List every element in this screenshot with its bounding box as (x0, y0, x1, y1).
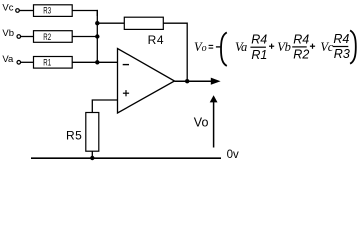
svg-text:R3: R3 (334, 47, 350, 61)
wire R1 to op-amp inverting input (72, 61, 117, 63)
wire Va terminal to R1 (21, 61, 34, 63)
junction dot bus/R4 (95, 21, 99, 25)
junction dot R5/ground (90, 156, 94, 160)
formula fraction R4/R1 (250, 33, 267, 62)
op-amp U1 (118, 49, 175, 114)
svg-text:Vc: Vc (2, 2, 13, 13)
wire bus to R4 (97, 22, 124, 24)
formula closing parenthesis (350, 30, 356, 63)
output arrow head (211, 78, 221, 85)
formula minus sign (216, 46, 221, 48)
svg-text:Vb: Vb (2, 28, 14, 39)
svg-text:R4: R4 (148, 33, 165, 47)
wire Vb terminal to R2 (21, 36, 34, 38)
wire R3 to bus (72, 11, 97, 17)
input terminal circle Vb (17, 35, 21, 39)
svg-text:R4: R4 (251, 33, 267, 47)
svg-text:R5: R5 (66, 129, 82, 143)
resistor R3 (34, 5, 73, 17)
svg-text:R4: R4 (293, 33, 309, 47)
formula plus (310, 44, 315, 49)
svg-text:Vb: Vb (277, 40, 290, 54)
wire Vc terminal to R3 (19, 10, 33, 12)
resistor R2 (34, 31, 73, 43)
junction dot bus/R1 (95, 60, 99, 64)
junction dot output node (185, 79, 189, 83)
svg-text:Vo: Vo (194, 40, 207, 54)
svg-text:R4: R4 (333, 32, 349, 46)
input terminal circle Va (17, 61, 21, 65)
svg-text:R1: R1 (43, 58, 51, 68)
formula fraction R4/R3 (333, 32, 350, 61)
input terminal circle Vc (16, 9, 20, 13)
resistor R1 (34, 57, 73, 69)
svg-text:R2: R2 (293, 47, 309, 61)
wire op-amp noninverting input (92, 100, 117, 113)
svg-text:0v: 0v (227, 149, 239, 161)
svg-text:R1: R1 (251, 48, 267, 62)
junction dot bus/R2 (95, 34, 99, 38)
wire op-amp output (175, 80, 212, 82)
wire R2 to bus (72, 36, 97, 38)
formula: Vo = -( (194, 40, 213, 54)
resistor R4 (124, 17, 163, 29)
svg-text:Vc: Vc (320, 40, 333, 54)
resistor R5 (86, 113, 99, 152)
wire R5 to ground (91, 151, 93, 158)
ground rail 0v (31, 157, 221, 159)
svg-text:R2: R2 (43, 32, 51, 42)
svg-text:Va: Va (235, 40, 247, 54)
formula plus (269, 44, 274, 49)
wire R4 to output node (feedback) (163, 23, 187, 81)
wire summing bus vertical (96, 10, 98, 62)
svg-text:Va: Va (2, 54, 14, 65)
op-amp plus sign (123, 90, 129, 96)
svg-text:Vo: Vo (194, 116, 209, 130)
svg-text:R3: R3 (43, 5, 51, 15)
formula opening parenthesis (221, 32, 227, 66)
formula fraction R4/R2 (292, 33, 309, 62)
Vo indicator arrow (210, 95, 218, 147)
op-amp minus sign (123, 64, 129, 66)
